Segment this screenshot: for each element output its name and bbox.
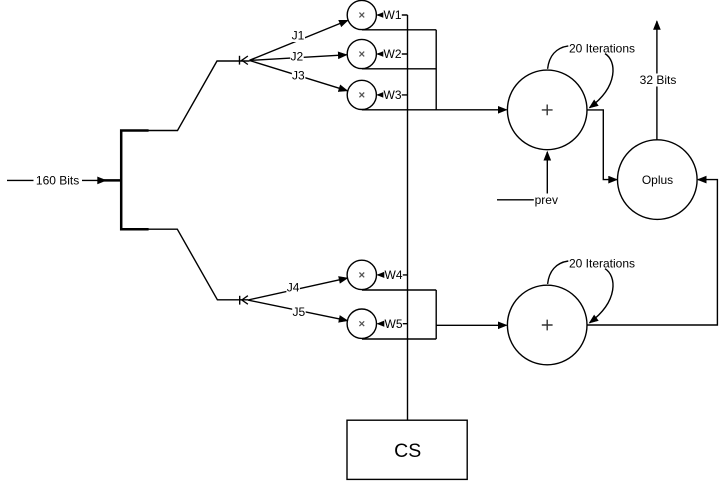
svg-text:CS: CS [394,440,421,462]
wire vertical bus from W junctions to CS [407,15,409,420]
Oplus circle [618,140,698,220]
svg-text:J1: J1 [292,29,305,43]
wire J4 [248,278,347,300]
wire bottom collector vertical [435,290,437,339]
wire adder 2 input [436,324,506,326]
wire top branch [148,61,250,131]
node top junction open arrow [242,56,248,65]
wire bottom branch [148,229,249,300]
wire J2 [250,55,347,61]
svg-text:W2: W2 [384,47,402,61]
leader curve left bottom [548,261,569,284]
label 20 Iterations bottom [567,257,638,271]
node bottom junction bar [239,296,241,305]
wire W5 [378,323,408,325]
svg-text:W5: W5 [385,317,403,331]
multiplier circle x1 [347,0,376,29]
wire multiplier 5 output [362,338,436,340]
svg-text:20 Iterations: 20 Iterations [569,41,635,55]
wire W3 [378,94,408,96]
adder circle 2 [507,285,587,365]
splitter bracket [121,131,148,230]
svg-text:32 Bits: 32 Bits [640,73,677,87]
adder circle 1 [507,70,587,150]
svg-text:W4: W4 [385,268,403,282]
node top junction bar [239,56,241,65]
wire 160 Bits input [7,179,106,181]
multiplier circle x4 [347,260,376,289]
label 20 Iterations top [567,42,638,56]
svg-text:160 Bits: 160 Bits [36,173,79,187]
wire multiplier 3 output and adder 1 input [362,109,506,111]
svg-text:W3: W3 [384,88,402,102]
wire adder 1 output to Oplus [587,110,617,180]
svg-text:W1: W1 [384,8,402,22]
node bottom junction open arrow [242,296,248,305]
svg-text:Oplus: Oplus [642,173,673,187]
wire 32 Bits output [656,21,658,140]
svg-text:J2: J2 [290,50,303,64]
multiplier circle x2 [347,39,376,68]
svg-text:20 Iterations: 20 Iterations [569,257,635,271]
wire prev [497,152,547,200]
wire multiplier 1 output [362,29,436,31]
wire J3 [250,61,348,91]
CS box [347,420,467,479]
svg-text:J3: J3 [292,68,305,82]
wire multiplier 4 output [362,289,436,291]
multiplier circle x3 [347,80,376,109]
splitter bracket stub [104,179,122,182]
wire W4 [378,274,408,276]
wire W1 [378,14,408,16]
wire top collector vertical [435,30,437,110]
svg-text:prev: prev [535,193,558,207]
wire adder 2 output to Oplus [587,180,718,325]
wire multiplier 2 output [362,68,436,70]
multiplier circle x5 [347,309,376,338]
svg-text:J4: J4 [287,280,300,294]
wire W2 [378,53,408,55]
wire J5 [248,300,347,321]
leader curve right bottom with arrow [590,269,613,323]
leader curve right top with arrow [590,54,613,108]
wire J1 [250,20,348,60]
node 160 Bits label [34,174,83,187]
svg-text:J5: J5 [293,305,306,319]
leader curve left top [548,46,569,69]
